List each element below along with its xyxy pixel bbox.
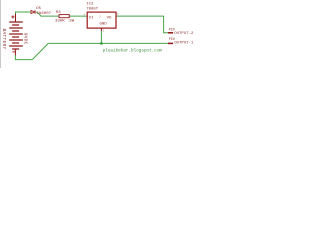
svg-text:GND: GND: [100, 23, 108, 27]
output1 pin bar: [168, 42, 173, 44]
svg-text:7805T: 7805T: [86, 8, 99, 12]
battery plus sign: [11, 15, 14, 18]
svg-text:PIN: PIN: [169, 37, 175, 41]
wire IC GND down: [100, 31, 102, 44]
svg-text:1N4007: 1N4007: [37, 12, 52, 16]
background: [0, 0, 200, 68]
svg-text:9VDC: 9VDC: [23, 33, 29, 45]
voltage regulator IC2 box: [87, 12, 116, 28]
battery minus sign: [12, 51, 15, 53]
left gray page edge: [0, 0, 2, 68]
wire resistor to IC VI: [69, 15, 87, 17]
battery minus pin stub: [14, 49, 16, 55]
ground bus wire: [48, 42, 168, 44]
svg-text:OUTPUT-1: OUTPUT-1: [174, 41, 194, 45]
output2 pin bar: [168, 32, 173, 34]
resistor R3: [59, 15, 69, 18]
svg-text:OUTPUT-2: OUTPUT-2: [174, 32, 194, 36]
svg-text:VO: VO: [107, 16, 112, 20]
svg-text:R3: R3: [56, 11, 61, 15]
battery plates: [9, 22, 23, 49]
wire IC VO to corner and down to output2: [116, 16, 168, 33]
svg-text:pleaikekar.blogspot.com: pleaikekar.blogspot.com: [103, 49, 163, 54]
diode D5: [31, 10, 35, 13]
IC gnd pin stub: [100, 28, 102, 31]
junction dot: [100, 42, 103, 45]
wire diode to resistor (with jog): [36, 12, 59, 16]
svg-text:IC2: IC2: [86, 3, 94, 7]
svg-text:330R .5W: 330R .5W: [55, 19, 75, 23]
diagonal wire battery minus to ground bus: [32, 43, 48, 59]
wire battery minus bottom run: [15, 55, 32, 60]
svg-text:D5: D5: [36, 7, 41, 11]
svg-text:VI: VI: [89, 16, 94, 20]
svg-text:PIN: PIN: [169, 27, 175, 31]
wire battery plus to diode: [16, 12, 31, 14]
battery BAT1 plus pin stub: [15, 14, 17, 22]
